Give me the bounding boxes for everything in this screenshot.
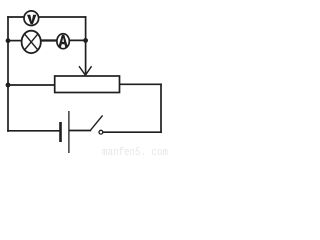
wire bottom left (corner to battery) (8, 130, 60, 132)
wire left rail (7, 17, 9, 131)
node B (right junction at wiper line) (83, 38, 88, 43)
wire rheostat left lead (8, 84, 55, 86)
node C (left junction, rheostat branch) (6, 83, 11, 88)
wire rheostat right lead (120, 83, 162, 85)
wire vertical from top corner through node to wiper (85, 17, 87, 74)
wire battery to switch hinge (70, 130, 91, 132)
node A (left junction, lamp branch) (6, 38, 11, 43)
wire right rail (160, 84, 162, 132)
wire switch to bottom right corner (103, 131, 161, 133)
ammeter A1 (57, 34, 69, 49)
lamp L1 (22, 31, 41, 53)
wire lamp to ammeter (41, 39, 57, 41)
switch S1 lever (90, 115, 103, 130)
wire top segment right (voltmeter to right corner) (39, 16, 86, 18)
wire lamp branch left (8, 40, 22, 42)
switch S1 terminal circle (99, 130, 103, 134)
battery B1 positive plate (long thin) (68, 111, 70, 153)
rheostat R1 wiper arrow (79, 66, 92, 75)
svg-text:manfen5. com: manfen5. com (102, 147, 168, 157)
rheostat R1 body (55, 76, 120, 93)
wire ammeter to node B (69, 39, 85, 41)
wire top segment left (corner to voltmeter) (8, 16, 24, 18)
voltmeter V1 (24, 11, 39, 26)
battery B1 negative plate (short thick) (59, 122, 62, 142)
